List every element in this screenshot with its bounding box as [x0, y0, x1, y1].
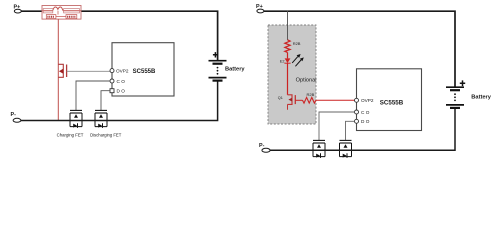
thermal fuse F1 (red dashed box with heater)	[42, 6, 81, 20]
wire	[287, 52, 289, 58]
svg-text:Battery: Battery	[225, 67, 245, 73]
transistor discharging FET	[90, 110, 122, 137]
svg-text:C O: C O	[117, 79, 126, 84]
wire bottom rail left schematic	[21, 81, 218, 121]
node P+ (left)	[14, 5, 22, 13]
svg-text:P-: P-	[11, 112, 17, 118]
svg-text:D O: D O	[361, 119, 370, 124]
node P- (left)	[11, 112, 21, 122]
node pin OVP2 (left)	[110, 69, 129, 74]
svg-text:Battery: Battery	[471, 95, 491, 101]
wire	[287, 63, 289, 94]
svg-text:P-: P-	[259, 143, 265, 149]
node pin CO (left)	[110, 79, 125, 84]
svg-text:SC555B: SC555B	[380, 99, 404, 106]
svg-text:Charging FET: Charging FET	[57, 133, 84, 138]
svg-text:Optional: Optional	[296, 78, 317, 84]
svg-text:D O: D O	[117, 89, 126, 94]
optional block (gray dashed box)	[268, 25, 316, 124]
node P- (right)	[259, 143, 270, 153]
node pin CO (right)	[355, 110, 370, 115]
wire bottom rail right schematic	[270, 108, 455, 150]
svg-text:OVP2: OVP2	[116, 69, 129, 74]
wire P+ tap into optional block	[287, 11, 289, 40]
node pin DO (left)	[110, 89, 125, 94]
svg-text:Discharging FET: Discharging FET	[90, 133, 122, 138]
transistor Q1 (red FET in optional block)	[278, 95, 296, 110]
resistor R2B (gate series, horizontal)	[303, 92, 316, 103]
wire DO to discharging FET gate	[101, 91, 110, 111]
svg-text:OVP2: OVP2	[361, 98, 374, 103]
wire top rail left schematic	[21, 11, 218, 60]
wire DO to FET gate (right)	[346, 121, 355, 140]
transistor charging FET	[57, 110, 84, 137]
wire CO to FET gate (right)	[319, 112, 355, 140]
svg-text:R2B: R2B	[307, 92, 315, 97]
svg-text:Q1: Q1	[278, 96, 283, 100]
svg-text:C O: C O	[361, 110, 370, 115]
node pin DO (right)	[355, 119, 370, 124]
wire heater tap (red vertical)	[57, 19, 59, 120]
zener diode E2 (in optional block)	[280, 54, 304, 66]
transistor Q1 (red FET driving fuse heater)	[58, 64, 66, 77]
IC U1 SC555B (left protection IC)	[112, 43, 174, 96]
wire Q1 gate to OVP2	[67, 70, 110, 72]
wire Q1 gate	[295, 99, 302, 101]
wire R2B to OVP2	[316, 99, 355, 101]
svg-text:E2: E2	[280, 60, 285, 64]
node P+ (right)	[256, 4, 264, 13]
resistor R2B (top, in optional block)	[285, 40, 301, 53]
transistor discharging FET (right)	[340, 140, 352, 158]
wire top rail right schematic	[264, 11, 456, 87]
svg-text:R2B: R2B	[293, 41, 301, 46]
battery B2 (right)	[446, 80, 492, 108]
battery B1 (left)	[209, 52, 246, 81]
transistor charging FET (right)	[313, 140, 325, 158]
IC U2 SC555B (right protection IC)	[357, 69, 422, 131]
node pin OVP2 (right)	[355, 98, 374, 103]
wire CO to charging FET gate	[76, 81, 110, 110]
svg-text:SC555B: SC555B	[133, 69, 156, 75]
